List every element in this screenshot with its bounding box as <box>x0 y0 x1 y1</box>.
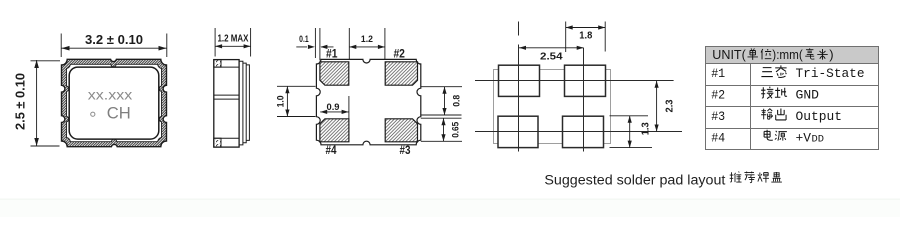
svg-text:#3: #3 <box>711 109 725 124</box>
svg-text:Tri-State: Tri-State <box>796 66 865 81</box>
dimension 0.9 (pad width, bottom view) <box>320 96 349 119</box>
svg-text:2.3: 2.3 <box>665 99 676 112</box>
top view marking text CH <box>107 104 131 123</box>
dimension 2.3 (solder pad pitch vertical) <box>655 81 659 132</box>
dimension 3.2 ± 0.10 (top view width) <box>61 34 167 58</box>
svg-text:#1: #1 <box>326 49 338 61</box>
svg-text:0.65: 0.65 <box>450 121 461 138</box>
svg-text:Suggested solder pad layout: Suggested solder pad layout <box>544 172 725 187</box>
solder layout center line horizontal bottom row <box>475 131 682 133</box>
svg-text:1.2 MAX: 1.2 MAX <box>218 32 249 44</box>
pad #4 (hatched) <box>320 119 349 142</box>
dimension 0.8 (bottom view right) <box>421 87 462 115</box>
table frame <box>705 47 879 150</box>
svg-text:):mm(: ):mm( <box>772 47 803 62</box>
solder layout center line vertical right column <box>583 48 585 152</box>
svg-text:CH: CH <box>107 104 131 123</box>
dimension 0.1 (pad offset, bottom view) <box>296 28 333 61</box>
svg-text:3.2 ± 0.10: 3.2 ± 0.10 <box>85 32 143 47</box>
svg-text:0.8: 0.8 <box>451 95 462 107</box>
svg-text:#3: #3 <box>400 145 411 157</box>
svg-text:#4: #4 <box>711 130 725 145</box>
svg-text:2.54: 2.54 <box>540 51 563 62</box>
svg-text:#4: #4 <box>326 145 338 157</box>
table row 4: #4 电源 +VDD <box>711 130 824 146</box>
svg-text:#2: #2 <box>393 49 405 61</box>
table header UNIT(单位):mm(毫米) <box>712 47 833 62</box>
dimension 1.3 (solder pad height) <box>610 116 653 148</box>
svg-text:Output: Output <box>796 109 843 124</box>
svg-text:+V: +V <box>796 130 812 145</box>
side view top-left seal section (hatched) <box>214 60 221 68</box>
table row 3: #3 输出 Output <box>711 109 842 124</box>
dimension 2.54 (solder pad pitch horizontal) <box>519 46 584 50</box>
top view pin1 dot <box>91 112 95 116</box>
svg-text:0.9: 0.9 <box>327 102 340 113</box>
pin label #2 <box>393 49 405 61</box>
top view marking text xx.xxx <box>88 88 133 103</box>
top view metal lid <box>69 67 159 139</box>
bottom view package outline <box>316 59 420 144</box>
svg-text:#1: #1 <box>711 66 725 81</box>
solder pad bottom-left <box>498 116 538 147</box>
solder layout package outline (reference, gray) <box>494 70 611 144</box>
solder layout center line redraw through pads <box>498 65 606 147</box>
caption: Suggested solder pad layout <box>544 172 725 187</box>
pin label #3 <box>400 145 411 157</box>
pad #1 (hatched) <box>320 62 349 85</box>
svg-text:UNIT(: UNIT( <box>712 47 746 62</box>
dimension 1.0 (pad row gap, bottom view left) <box>277 86 316 116</box>
solder layout center line vertical left column <box>518 22 520 152</box>
dimension 1.2 (pad gap, bottom view) <box>349 28 385 61</box>
svg-text:): ) <box>829 47 833 62</box>
side view stepped castellation plates <box>239 61 249 145</box>
svg-text:2.5 ± 0.10: 2.5 ± 0.10 <box>13 73 28 130</box>
svg-text:DD: DD <box>812 134 825 145</box>
pad #3 (hatched) <box>385 119 417 142</box>
dimension 1.8 (solder pad width) <box>566 22 606 53</box>
pad #2 (hatched) <box>385 62 417 85</box>
svg-text:1.0: 1.0 <box>276 95 287 107</box>
solder pad top-left <box>499 65 540 96</box>
svg-text:1.8: 1.8 <box>579 31 592 42</box>
svg-text:1.2: 1.2 <box>361 34 373 45</box>
dimension 2.5 ± 0.10 (top view height) <box>31 60 61 146</box>
svg-text:GND: GND <box>796 87 820 102</box>
table row 2: #2 接地 GND <box>711 87 819 103</box>
side view body <box>214 60 239 148</box>
solder layout center line horizontal top row <box>475 80 674 82</box>
svg-text:1.3: 1.3 <box>641 122 652 135</box>
caption chinese 推荐焊盘 <box>730 172 782 183</box>
side view bottom-left seal section (hatched) <box>214 138 221 147</box>
dimension 0.65 (bottom view right) <box>421 118 462 141</box>
svg-text:#2: #2 <box>711 87 725 102</box>
dimension 1.2 MAX (side view height) <box>215 28 251 57</box>
solder pad bottom-right <box>563 116 604 147</box>
solder pad top-right <box>565 65 606 96</box>
pin label #1 <box>326 49 338 61</box>
svg-text:xx.xxx: xx.xxx <box>88 88 133 103</box>
top view package outline with hatched seal ring <box>62 59 167 146</box>
table row 1: #1 三态 Tri-State <box>711 65 864 80</box>
pin label #4 <box>326 145 338 157</box>
svg-text:0.1: 0.1 <box>299 34 309 45</box>
